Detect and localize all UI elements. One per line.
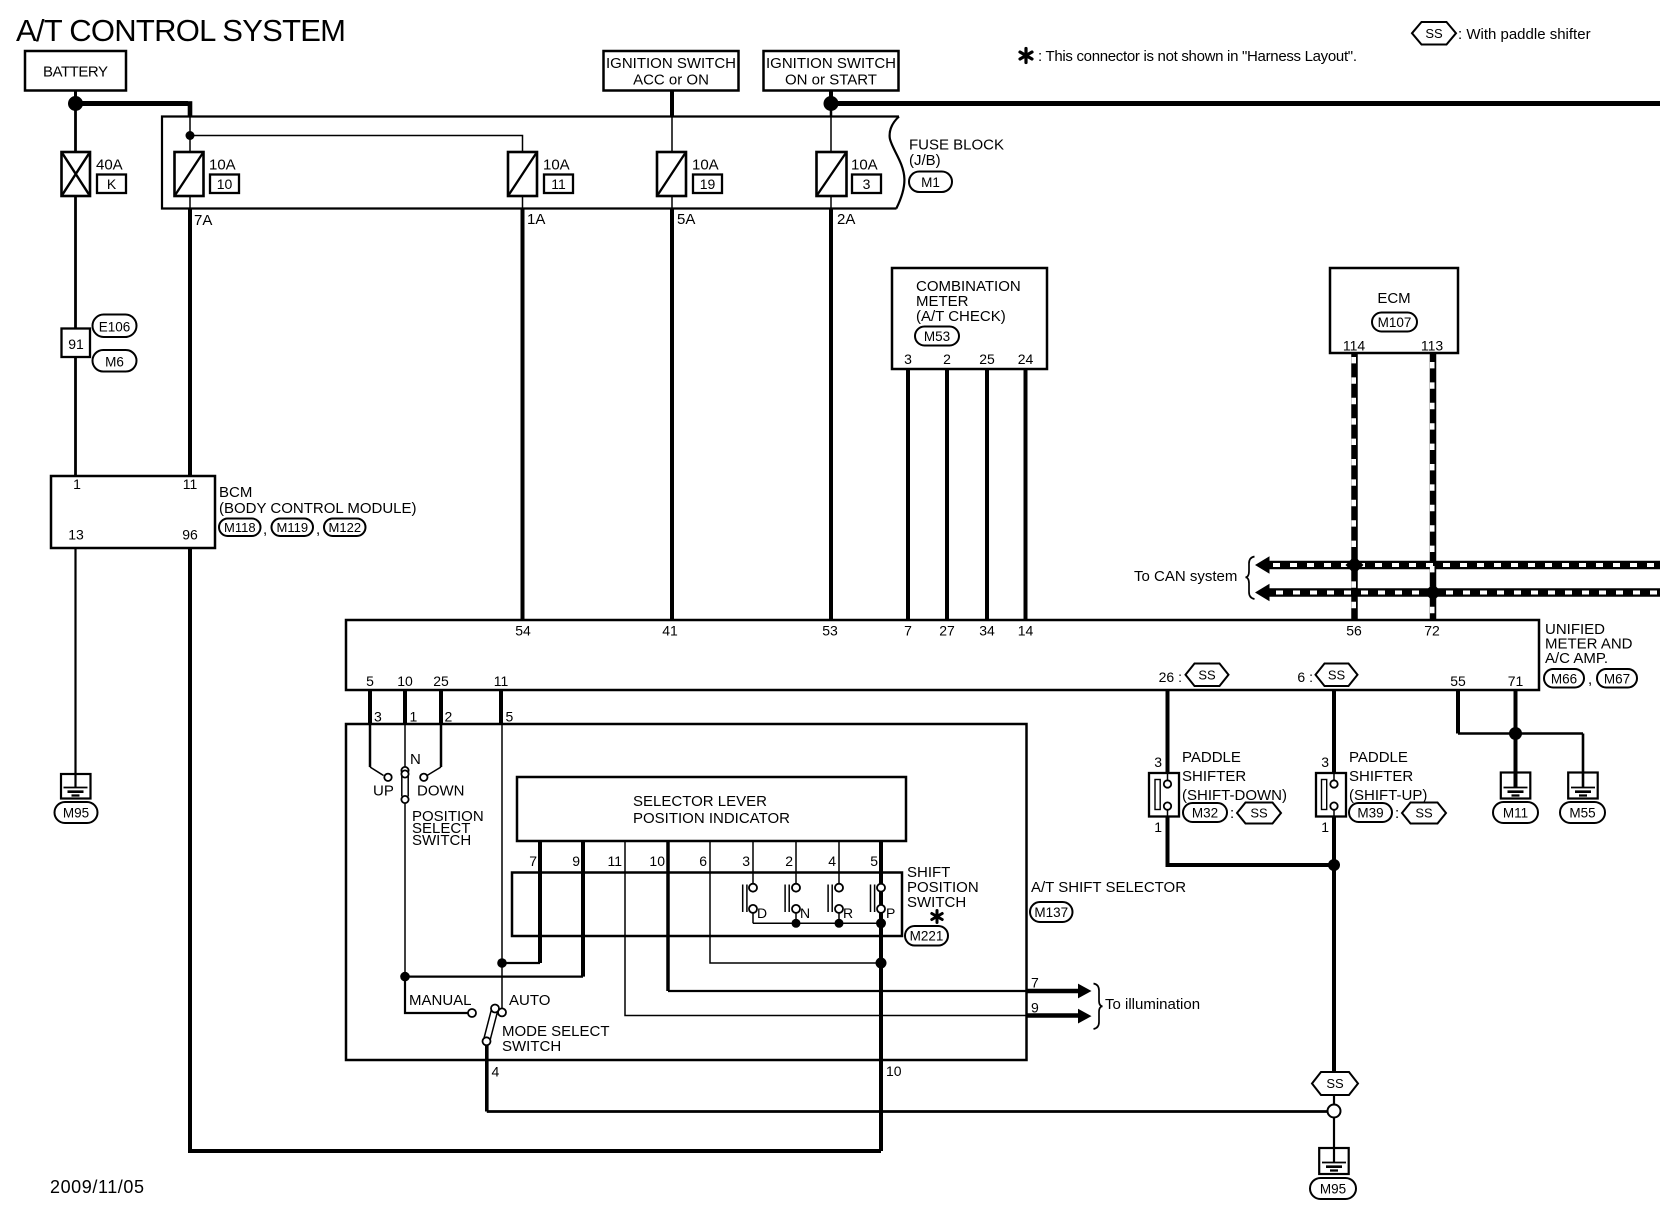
svg-text:A/T CONTROL SYSTEM: A/T CONTROL SYSTEM (16, 13, 346, 48)
svg-text:5: 5 (870, 853, 878, 869)
svg-text:M95: M95 (1320, 1182, 1346, 1197)
svg-text:6 :: 6 : (1297, 669, 1313, 685)
svg-text:41: 41 (662, 623, 678, 639)
svg-text:M95: M95 (63, 806, 89, 821)
svg-text:To illumination: To illumination (1105, 996, 1200, 1013)
svg-text:UP: UP (373, 783, 394, 800)
svg-text:1: 1 (73, 476, 81, 492)
svg-text:IGNITION SWITCH: IGNITION SWITCH (606, 55, 736, 72)
svg-text:SS: SS (1328, 668, 1346, 683)
svg-text:D: D (757, 905, 767, 921)
svg-text:3: 3 (1321, 754, 1329, 770)
svg-text:1A: 1A (527, 211, 545, 228)
svg-text:2A: 2A (837, 211, 855, 228)
svg-text:(BODY CONTROL MODULE): (BODY CONTROL MODULE) (219, 500, 417, 517)
svg-text:4: 4 (828, 853, 836, 869)
svg-text:3: 3 (742, 853, 750, 869)
svg-text:10A: 10A (209, 157, 236, 174)
svg-text:24: 24 (1018, 351, 1034, 367)
svg-text:6: 6 (699, 853, 707, 869)
svg-text:5: 5 (366, 673, 374, 689)
svg-text:10A: 10A (851, 157, 878, 174)
svg-text:SWITCH: SWITCH (907, 894, 966, 911)
svg-text:56: 56 (1346, 623, 1362, 639)
svg-text:2: 2 (445, 709, 453, 725)
svg-text:PADDLE: PADDLE (1349, 749, 1408, 766)
svg-text:M67: M67 (1604, 672, 1630, 687)
svg-text:M53: M53 (924, 329, 950, 344)
svg-text:10: 10 (217, 176, 233, 192)
svg-text:(J/B): (J/B) (909, 152, 941, 169)
svg-text:MANUAL: MANUAL (409, 992, 472, 1009)
svg-text:3: 3 (374, 709, 382, 725)
svg-text:E106: E106 (99, 320, 131, 335)
svg-text:SELECTOR LEVER: SELECTOR LEVER (633, 793, 767, 810)
svg-text:5A: 5A (677, 211, 695, 228)
svg-text:SWITCH: SWITCH (502, 1038, 561, 1055)
svg-text:26 :: 26 : (1159, 669, 1182, 685)
svg-text:2009/11/05: 2009/11/05 (50, 1177, 144, 1197)
svg-text:: This connector is not shown: : This connector is not shown in "Harnes… (1038, 48, 1357, 65)
svg-text:M137: M137 (1034, 905, 1068, 920)
svg-text:P: P (886, 905, 895, 921)
svg-text::: : (1230, 805, 1234, 822)
svg-text:25: 25 (979, 351, 995, 367)
svg-text:M11: M11 (1503, 806, 1528, 821)
svg-text:AUTO: AUTO (509, 992, 550, 1009)
svg-text:,: , (263, 521, 267, 538)
svg-text:ECM: ECM (1377, 290, 1410, 307)
svg-text:M32: M32 (1192, 806, 1218, 821)
svg-text:(SHIFT-UP): (SHIFT-UP) (1349, 787, 1427, 804)
svg-text:N: N (800, 905, 810, 921)
svg-text:7: 7 (904, 623, 912, 639)
svg-text:72: 72 (1424, 623, 1440, 639)
svg-text:2: 2 (943, 351, 951, 367)
svg-text:: With paddle shifter: : With paddle shifter (1458, 26, 1591, 43)
svg-text:DOWN: DOWN (417, 783, 465, 800)
svg-text:19: 19 (700, 176, 716, 192)
svg-text:A/C AMP.: A/C AMP. (1545, 650, 1608, 667)
svg-text:,: , (1588, 671, 1592, 688)
svg-text:91: 91 (68, 336, 84, 352)
svg-text:53: 53 (822, 623, 838, 639)
svg-text:ON or START: ON or START (785, 72, 877, 89)
svg-text:10A: 10A (692, 157, 719, 174)
svg-text:7: 7 (529, 853, 537, 869)
svg-text:BATTERY: BATTERY (43, 64, 108, 81)
svg-text:5: 5 (506, 709, 514, 725)
svg-text:11: 11 (494, 673, 509, 689)
svg-text:11: 11 (183, 476, 198, 492)
svg-text:SS: SS (1425, 26, 1443, 41)
svg-text:7: 7 (1031, 975, 1039, 991)
svg-text:4: 4 (492, 1064, 500, 1080)
svg-text:114: 114 (1343, 338, 1366, 354)
svg-text:M221: M221 (910, 929, 944, 944)
svg-text:25: 25 (433, 673, 449, 689)
svg-text:M118: M118 (224, 520, 256, 535)
svg-text:9: 9 (572, 853, 580, 869)
svg-text:(SHIFT-DOWN): (SHIFT-DOWN) (1182, 787, 1287, 804)
svg-text:11: 11 (607, 853, 622, 869)
svg-text:71: 71 (1508, 673, 1524, 689)
svg-text:SS: SS (1198, 668, 1216, 683)
svg-text:M55: M55 (1569, 806, 1595, 821)
svg-text:1: 1 (410, 709, 418, 725)
svg-text:10: 10 (886, 1063, 902, 1079)
svg-text:10A: 10A (543, 157, 570, 174)
svg-text:SHIFTER: SHIFTER (1182, 768, 1246, 785)
svg-text:3: 3 (1154, 754, 1162, 770)
svg-text:27: 27 (939, 623, 955, 639)
svg-text:M107: M107 (1378, 315, 1412, 330)
svg-text:IGNITION SWITCH: IGNITION SWITCH (766, 55, 896, 72)
svg-text::: : (1395, 805, 1399, 822)
svg-text:R: R (843, 905, 853, 921)
svg-text:K: K (107, 176, 117, 192)
svg-text:1: 1 (1321, 819, 1329, 835)
svg-text:PADDLE: PADDLE (1182, 749, 1241, 766)
svg-text:SWITCH: SWITCH (412, 832, 471, 849)
svg-text:10: 10 (649, 853, 665, 869)
svg-text:11: 11 (551, 176, 566, 192)
svg-text:34: 34 (979, 623, 995, 639)
svg-text:55: 55 (1450, 673, 1466, 689)
svg-text:,: , (316, 521, 320, 538)
svg-text:FUSE BLOCK: FUSE BLOCK (909, 137, 1004, 154)
svg-text:2: 2 (785, 853, 793, 869)
svg-text:SHIFTER: SHIFTER (1349, 768, 1413, 785)
svg-text:40A: 40A (96, 157, 123, 174)
svg-text:13: 13 (68, 527, 84, 543)
svg-text:ACC or ON: ACC or ON (633, 72, 709, 89)
svg-text:SS: SS (1415, 806, 1433, 821)
svg-text:M1: M1 (921, 175, 940, 190)
svg-text:(A/T CHECK): (A/T CHECK) (916, 308, 1006, 325)
svg-text:14: 14 (1018, 623, 1034, 639)
svg-text:M122: M122 (329, 520, 362, 535)
svg-text:M39: M39 (1357, 806, 1383, 821)
svg-text:3: 3 (863, 176, 871, 192)
svg-text:BCM: BCM (219, 484, 252, 501)
svg-text:96: 96 (182, 527, 198, 543)
svg-text:POSITION INDICATOR: POSITION INDICATOR (633, 810, 790, 827)
svg-text:M66: M66 (1551, 672, 1577, 687)
svg-text:3: 3 (904, 351, 912, 367)
svg-text:M6: M6 (105, 355, 124, 370)
svg-text:54: 54 (515, 623, 531, 639)
svg-text:N: N (410, 751, 421, 768)
svg-text:9: 9 (1031, 1000, 1039, 1016)
svg-text:SS: SS (1326, 1076, 1344, 1091)
svg-text:SS: SS (1250, 806, 1268, 821)
svg-text:M119: M119 (277, 520, 309, 535)
svg-text:To CAN system: To CAN system (1134, 568, 1237, 585)
svg-text:113: 113 (1421, 338, 1444, 354)
svg-text:10: 10 (397, 673, 413, 689)
svg-text:1: 1 (1154, 819, 1162, 835)
svg-text:A/T SHIFT SELECTOR: A/T SHIFT SELECTOR (1031, 879, 1186, 896)
svg-text:7A: 7A (194, 212, 212, 229)
